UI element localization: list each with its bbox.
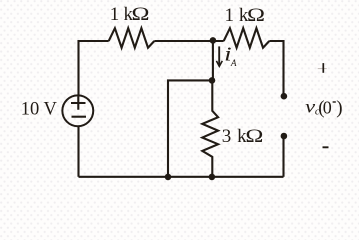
svg-text:0: 0 (323, 98, 332, 118)
svg-text:): ) (336, 97, 342, 118)
junction dot bottom of R3 (209, 174, 216, 181)
minus polarity mark (323, 146, 329, 148)
svg-text:1: 1 (225, 5, 235, 26)
terminal dot vc - (281, 133, 288, 140)
resistor R3 (3 kOhm) vertical with leads (202, 80, 218, 176)
svg-text:v: v (305, 96, 315, 116)
current arrow iA shaft (218, 46, 220, 66)
junction dot bottom of left branch (165, 174, 172, 181)
wire: node B left then down (left branch) to bottom wire (168, 80, 212, 176)
resistor R1 (1 kOhm) zigzag (109, 28, 155, 48)
wire: R2 right to top-right corner down to + terminal (269, 41, 283, 96)
svg-text:Ω: Ω (245, 126, 263, 147)
current arrow iA head (216, 61, 222, 66)
wire: - terminal of vc down to bottom-right corner (282, 136, 284, 177)
wire: source - terminal down to bottom wire (77, 127, 79, 177)
svg-text:3: 3 (222, 126, 232, 147)
V1 minus bar (72, 116, 87, 118)
bottom wire (79, 176, 284, 178)
resistor R2 (1 kOhm) zigzag (224, 28, 270, 48)
svg-text:10 V: 10 V (21, 99, 58, 119)
svg-text:A: A (230, 58, 237, 68)
terminal dot vc + (281, 93, 288, 100)
wire: source + terminal up and top-left horizontal to R1 (79, 41, 109, 95)
svg-text:Ω: Ω (132, 4, 150, 25)
wire: node A down to node B (212, 41, 214, 80)
wire: R1 right to R2 left through node A (154, 40, 223, 42)
junction dot node A (top, between R1 and R2) (210, 37, 217, 44)
voltage source V1 circle (62, 95, 93, 126)
V1 plus sign (71, 96, 86, 109)
junction dot node B (top of R3) (209, 77, 216, 84)
svg-text:1: 1 (110, 4, 120, 25)
svg-text:Ω: Ω (247, 5, 265, 26)
plus polarity mark (318, 68, 327, 70)
